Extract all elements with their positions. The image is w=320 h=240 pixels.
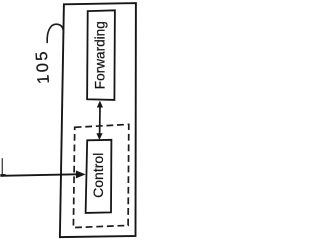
- svg-text:105: 105: [33, 49, 53, 85]
- leader curve for 105: [47, 24, 63, 42]
- bidirectional arrow top head: [97, 101, 103, 108]
- outer box node 105: [60, 3, 136, 237]
- svg-text:Forwarding: Forwarding: [92, 21, 107, 89]
- input wire corner blob: [0, 174, 5, 177]
- dashed control-plane box: [73, 124, 128, 227]
- svg-text:Control: Control: [90, 153, 106, 198]
- forwarding box: [87, 10, 115, 100]
- bidirectional arrow shaft: [99, 107, 101, 135]
- input wire vertical stub: [1, 158, 3, 175]
- input arrowhead: [76, 171, 86, 179]
- control box: [86, 140, 112, 213]
- bidirectional arrow bottom head: [96, 133, 102, 140]
- input wire: [1, 174, 77, 176]
